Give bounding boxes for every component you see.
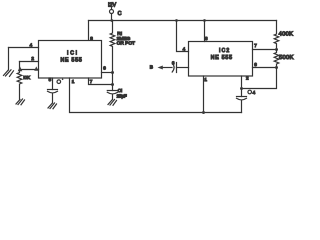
svg-text:NE 555: NE 555 <box>211 55 233 61</box>
svg-text:400K: 400K <box>279 32 294 38</box>
svg-text:I0K: I0K <box>23 75 31 80</box>
capacitor C3 coupling <box>172 63 188 73</box>
IC2 NE555 box <box>189 42 253 77</box>
wire: IC1 pin2 wire <box>20 61 39 63</box>
ground (below 10K) <box>16 99 25 105</box>
svg-text:1: 1 <box>204 77 207 82</box>
svg-text:CI: CI <box>118 88 122 93</box>
node pin6 junction <box>275 66 278 69</box>
wire: IC2 pin7 wire <box>253 49 277 51</box>
svg-text:25µF: 25µF <box>117 94 127 99</box>
IC1 NE555 box <box>39 41 102 79</box>
node pin2-C4 junction <box>240 87 243 90</box>
node rail-IC2pin8 <box>203 19 206 22</box>
svg-text:6: 6 <box>103 66 106 71</box>
ground (below C2) <box>48 103 57 109</box>
resistor 500K <box>274 50 279 68</box>
label C4 <box>248 90 256 95</box>
capacitor C1 25uF <box>107 85 117 100</box>
svg-text:7: 7 <box>254 43 257 48</box>
svg-text:4: 4 <box>253 90 256 95</box>
svg-text:C: C <box>118 11 122 17</box>
svg-text:OR POT: OR POT <box>117 41 135 47</box>
svg-text:5: 5 <box>49 77 52 82</box>
svg-text:1: 1 <box>72 79 75 84</box>
svg-text:4: 4 <box>30 43 33 48</box>
wire: IC2 pin1 drop <box>203 76 205 113</box>
ground (below C1) <box>108 100 117 106</box>
svg-text:500K: 500K <box>279 55 294 61</box>
node pin6-R1 junction <box>111 71 114 74</box>
capacitor C2 (IC1 pin5) <box>48 78 58 103</box>
resistor R1 2MEG <box>110 21 115 73</box>
node pin7 junction <box>275 48 278 51</box>
ground (left) <box>4 70 14 77</box>
label C1 25uF <box>117 88 127 99</box>
wire: left vertical to ground <box>8 48 10 71</box>
label C2 <box>57 79 63 84</box>
wire: IC2 pin6 wire <box>253 67 277 69</box>
node arrow at 10K junction <box>18 66 23 71</box>
node rail-IC2pin4 <box>175 19 178 22</box>
wire: IC1 pin7 step to C1 node <box>89 78 113 85</box>
svg-text:8: 8 <box>205 36 208 41</box>
wire: pin2 loop vertical <box>19 62 21 70</box>
svg-text:2: 2 <box>246 75 249 80</box>
wire: IC2 pin8 drop <box>204 21 206 42</box>
svg-text:ICI: ICI <box>67 51 79 57</box>
svg-text:B: B <box>150 65 153 71</box>
wire: IC1 pin4 wire <box>9 47 39 49</box>
svg-text:NE 555: NE 555 <box>61 57 83 63</box>
capacitor C4 <box>237 89 247 113</box>
node arrow near IC1 left edge <box>34 66 38 70</box>
svg-text:7: 7 <box>90 79 93 84</box>
wire: loop to lower pin <box>20 69 39 71</box>
wire: IC1 pin1 drop to bottom rail <box>70 78 242 113</box>
wire: IC1 pin8 drop <box>88 21 90 41</box>
svg-text:2: 2 <box>31 56 34 61</box>
wire: IC2 pin2 stub <box>241 76 243 89</box>
resistor 400K <box>274 21 279 50</box>
wire: pin6 junction down/left to pin2 <box>242 68 277 89</box>
svg-text:IC2: IC2 <box>219 48 230 54</box>
svg-text:3: 3 <box>172 60 175 65</box>
terminal B arrow <box>158 66 173 70</box>
resistor 10K <box>17 71 22 99</box>
svg-text:I2V: I2V <box>108 2 116 8</box>
wire: R1 column down to C1 <box>112 73 114 85</box>
wire: +12V supply rail <box>89 20 277 22</box>
svg-text:4: 4 <box>183 46 186 51</box>
label R1 2MEG OR POT <box>117 31 135 47</box>
wire: IC2 pin4 wire <box>177 21 189 52</box>
wire: IC1 pin6 wire <box>102 72 113 74</box>
node C1 top junction <box>111 83 114 86</box>
node pin1-rail junction <box>202 111 205 114</box>
node rail-12V-R1 <box>110 19 113 22</box>
svg-text:6: 6 <box>254 62 257 67</box>
12V terminal <box>110 8 114 21</box>
